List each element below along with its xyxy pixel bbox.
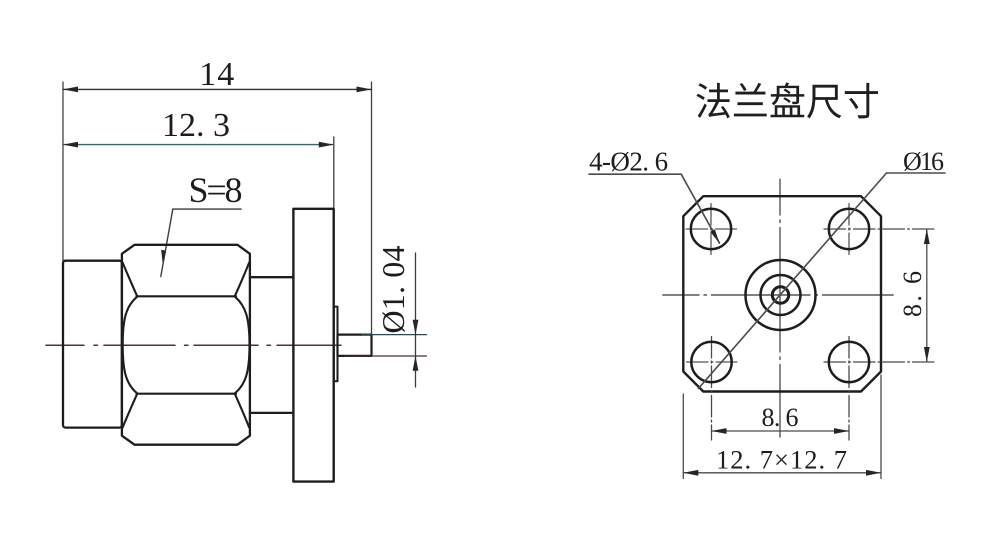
svg-text:Ø16: Ø16	[903, 147, 944, 176]
svg-text:Ø1. 04: Ø1. 04	[375, 246, 411, 334]
wire: extension line pin tip	[371, 82, 373, 356]
hex facet line lower	[137, 393, 237, 395]
flange vertical centerline	[779, 179, 781, 437]
center circle inner	[772, 287, 788, 303]
barrel bottom edge	[250, 412, 294, 414]
hole BR centerlines	[824, 361, 935, 363]
dim 12.7x12.7 extension left	[682, 394, 684, 479]
flange plate side	[293, 209, 333, 482]
leader S=8 arrow line	[161, 209, 173, 276]
hex chamfer arc bottom-left	[123, 394, 137, 427]
dimension 14 line	[63, 88, 372, 90]
leader 4-Ø2.6 diagonal with arrow	[681, 174, 719, 243]
dimension 12.3 line	[63, 144, 334, 146]
Ø1.04 extension bottom	[345, 355, 427, 357]
hex nut outline	[122, 245, 250, 445]
Ø1.04 dimension line vertical with outside arrows	[415, 253, 417, 387]
hole TL centerlines	[686, 228, 737, 230]
leader 4-Ø2.6 underline	[589, 173, 681, 175]
svg-text:8. 6: 8. 6	[762, 403, 799, 432]
hole TL	[691, 209, 731, 249]
hex facet line upper	[137, 295, 237, 297]
wire: extension line flange right face	[333, 137, 335, 209]
title 法兰盘尺寸	[696, 82, 878, 118]
center pin	[338, 335, 372, 356]
body rectangle	[63, 261, 122, 428]
svg-text:12. 7×12. 7: 12. 7×12. 7	[716, 445, 847, 475]
centerline axis (maroon dash-dot)	[46, 344, 341, 346]
svg-text:4-Ø2. 6: 4-Ø2. 6	[589, 147, 668, 177]
wire: extension line left (body left edge)	[62, 82, 64, 261]
dim 12.7x12.7 line	[683, 472, 881, 474]
svg-text:S=8: S=8	[189, 170, 243, 210]
hole BR	[829, 342, 869, 382]
hole TR	[829, 209, 869, 249]
dim 8.6 vertical right	[926, 229, 928, 362]
hex chamfer arc top-right	[235, 263, 249, 296]
hole TR centerlines (horizontal doubles as 8.6 extension)	[824, 228, 935, 230]
hex chamfer arc top-left	[123, 263, 137, 296]
svg-text:8. 6: 8. 6	[898, 271, 927, 317]
leader Ø16 diagonal	[698, 173, 886, 389]
hex middle face left arc	[123, 297, 137, 393]
Ø1.04 extension top	[362, 334, 427, 336]
center circle middle	[761, 275, 801, 315]
hole BL centerlines	[687, 361, 738, 363]
leader Ø16 underline	[887, 172, 946, 174]
center circle outer	[746, 260, 816, 330]
dim 12.7x12.7 extension right	[880, 375, 882, 479]
barrel top edge	[250, 276, 294, 278]
square flange outline	[683, 196, 881, 391]
insulator bead collar	[334, 307, 338, 382]
dim 8.6 bottom line	[712, 430, 850, 432]
hex chamfer arc bottom-right	[235, 394, 249, 427]
flange horizontal centerline	[663, 294, 893, 296]
svg-text:12. 3: 12. 3	[162, 107, 230, 144]
leader S=8 underline	[173, 208, 241, 210]
svg-text:14: 14	[199, 56, 234, 93]
hole BL	[691, 342, 731, 382]
hex middle face right arc	[235, 297, 250, 393]
